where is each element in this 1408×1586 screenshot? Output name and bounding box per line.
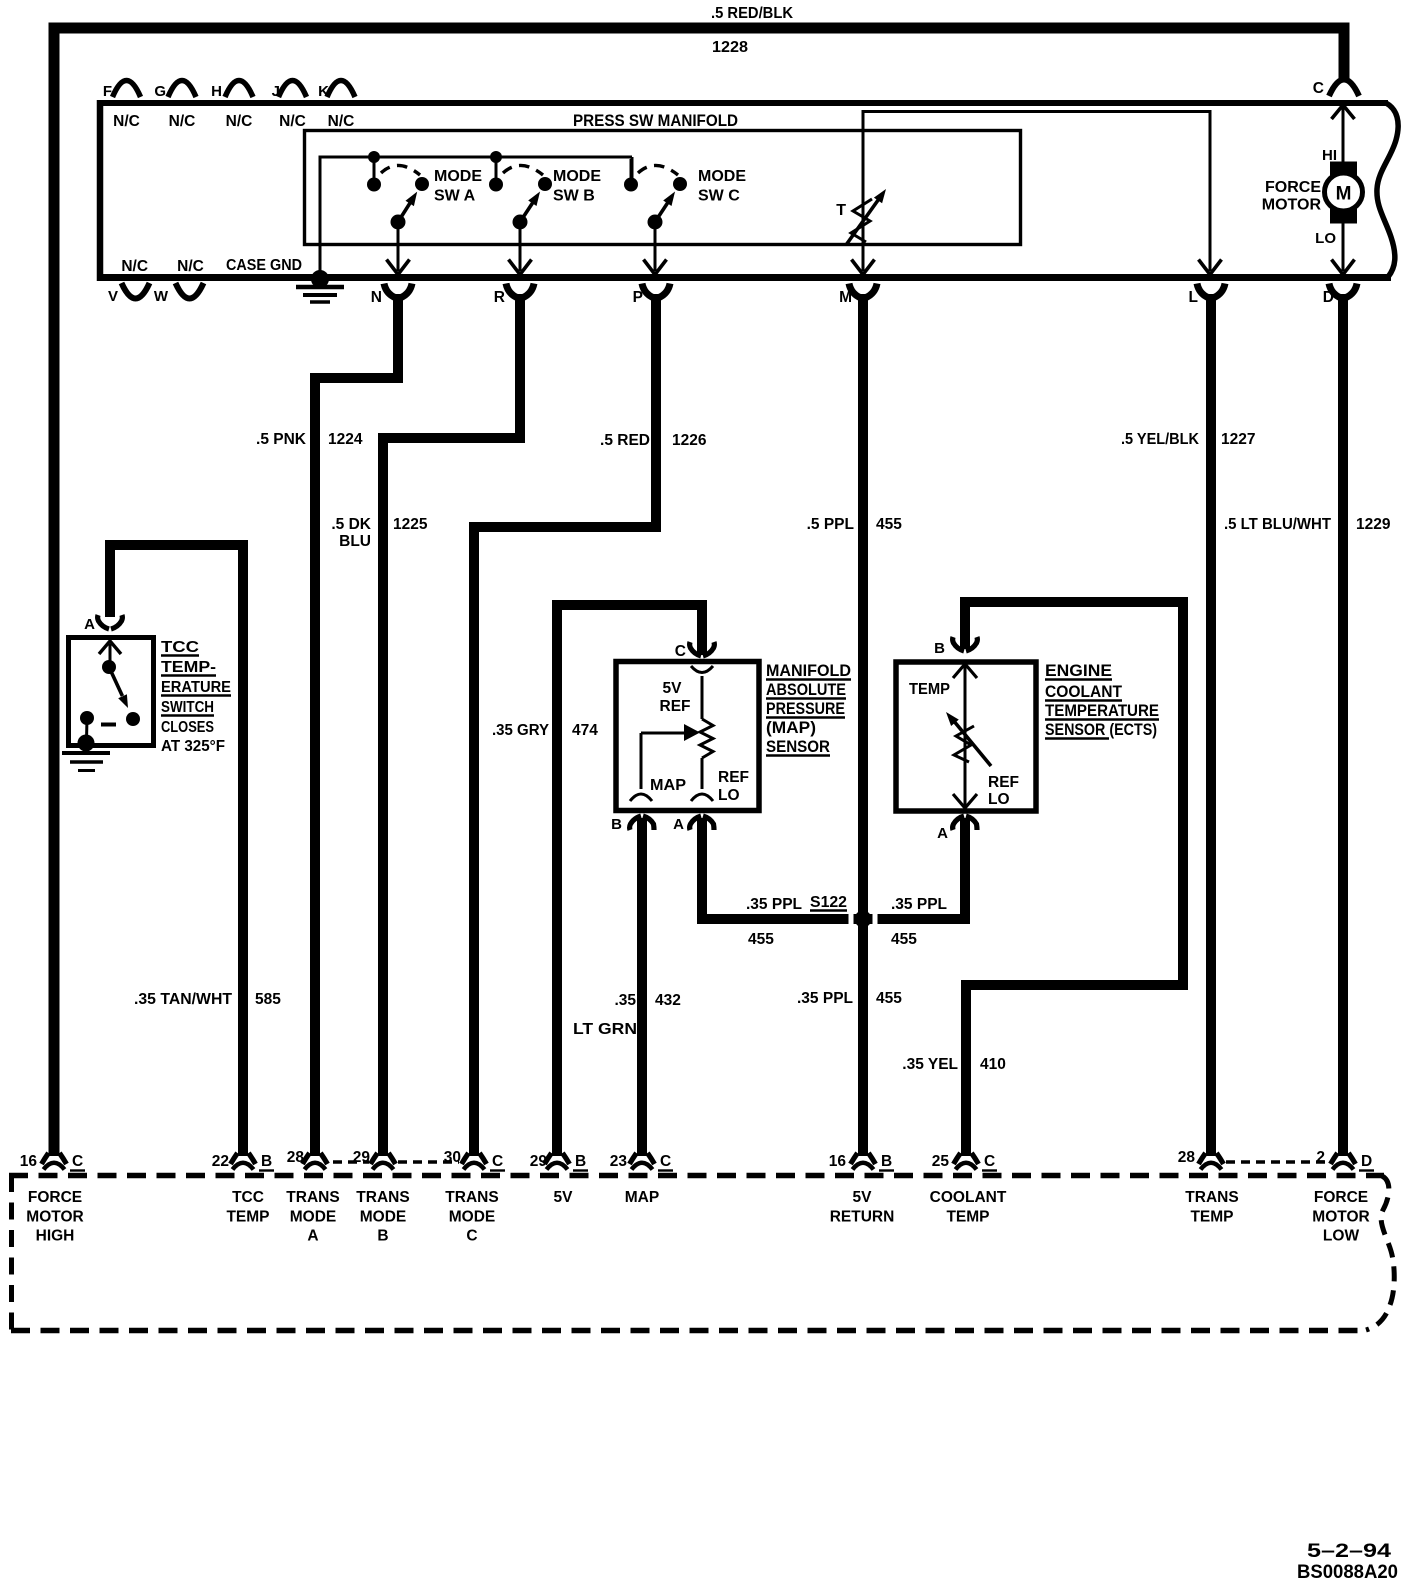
cavity G N/C [168,81,196,98]
svg-text:22: 22 [212,1153,229,1170]
svg-text:N/C: N/C [279,113,306,130]
svg-text:29: 29 [530,1153,548,1170]
PCM terminal 22 TCC TEMP [231,1153,238,1164]
svg-text:SENSOR: SENSOR [766,737,830,756]
svg-text:SENSOR (ECTS): SENSOR (ECTS) [1045,720,1157,739]
mode switch box [305,131,1021,245]
pin P (manifold bottom) [642,284,653,298]
ECTS box [896,662,1036,811]
PRESS SW MANIFOLD torn right edge [1377,103,1398,277]
svg-text:MODE: MODE [290,1208,337,1225]
svg-text:TEMP-: TEMP- [161,659,216,676]
svg-text:TCC: TCC [232,1189,264,1206]
svg-text:N/C: N/C [328,113,355,130]
MAP sensor pin A cup [691,794,713,801]
svg-text:C: C [1313,80,1324,97]
svg-text:REF: REF [660,698,691,715]
svg-text:B: B [611,816,622,833]
svg-text:455: 455 [876,990,902,1007]
svg-text:5V: 5V [663,680,683,697]
wire 585 .35 TAN/WHT TCC temp [110,545,243,1156]
svg-text:28: 28 [287,1149,305,1166]
svg-text:1227: 1227 [1221,431,1255,448]
pin L (manifold bottom) [1197,284,1208,298]
wire mode switch B pivot to manifold pin [519,222,522,271]
svg-text:A: A [307,1228,318,1245]
svg-text:N: N [371,289,382,306]
svg-text:J: J [272,83,280,100]
svg-text:455: 455 [748,931,774,948]
svg-text:.5 DK: .5 DK [331,516,371,533]
wire 455 .35 PPL MAP ref lo to splice [702,818,965,919]
wire L internal (press sw manifold) [1209,111,1212,271]
svg-text:1224: 1224 [328,431,363,448]
PCM terminal 16 FORCE MOTOR HIGH [42,1153,49,1164]
svg-text:ENGINE: ENGINE [1045,661,1112,680]
svg-text:M: M [1336,184,1352,205]
svg-text:PRESS SW MANIFOLD: PRESS SW MANIFOLD [573,111,738,130]
MAP sensor pin B cup [630,794,652,801]
svg-text:29: 29 [353,1149,371,1166]
MAP sensor box [616,662,759,811]
mode switch B [490,151,502,163]
svg-text:H: H [211,83,222,100]
cavity J N/C [279,81,307,98]
svg-text:S122: S122 [810,894,847,911]
svg-text:BS0088A20: BS0088A20 [1297,1561,1398,1583]
svg-text:1225: 1225 [393,516,428,533]
wire 1225 .5 DK BLU trans mode B [383,294,520,1156]
thermistor T [862,111,865,271]
svg-text:CLOSES: CLOSES [161,719,214,736]
svg-text:474: 474 [572,722,598,739]
pin C (manifold top) [1329,80,1359,97]
svg-text:N/C: N/C [113,113,140,130]
svg-text:AT 325°F: AT 325°F [161,738,225,755]
wire 1227 .5 YEL/BLK trans temp [1206,294,1216,1156]
svg-text:1226: 1226 [672,432,707,449]
svg-text:585: 585 [255,991,281,1008]
svg-text:MODE: MODE [360,1208,407,1225]
MAP sensor pin C terminal [690,642,701,656]
TCC switch case ground [62,751,110,755]
svg-text:C: C [492,1153,503,1170]
svg-text:2: 2 [1316,1149,1325,1166]
svg-text:.35 GRY: .35 GRY [492,722,550,739]
svg-text:TCC: TCC [161,639,200,656]
svg-text:.5 LT BLU/WHT: .5 LT BLU/WHT [1224,516,1332,533]
svg-text:A: A [673,816,684,833]
svg-text:HIGH: HIGH [36,1228,75,1245]
svg-text:.35 PPL: .35 PPL [797,990,853,1007]
MAP sensor pin B terminal [630,816,641,830]
svg-text:K: K [318,83,329,100]
svg-text:MAP: MAP [650,777,686,794]
svg-text:N/C: N/C [169,113,196,130]
ECTS internal [953,664,977,678]
svg-text:25: 25 [932,1153,950,1170]
TCC temperature switch contacts [99,641,121,654]
svg-text:.35 PPL: .35 PPL [746,896,802,913]
svg-text:SW A: SW A [434,188,476,205]
PCM terminal 30 TRANS MODE C [462,1153,469,1164]
dashes between PCM terminals 28-29-30 [333,1160,369,1163]
svg-text:ERATURE: ERATURE [161,679,231,696]
ECTS pin A terminal [953,816,964,830]
svg-text:410: 410 [980,1056,1006,1073]
svg-text:.5 RED/BLK: .5 RED/BLK [711,5,794,22]
svg-text:D: D [1361,1153,1372,1170]
wire 455 .5 PPL 5V return [858,294,868,1156]
cavity K N/C [327,81,355,98]
mode switch A [368,151,380,163]
force motor M [1330,162,1357,176]
wire ECTS temp feed (trans temp side) [965,602,1183,1156]
svg-text:LOW: LOW [1323,1228,1360,1245]
T box [862,110,1212,113]
svg-text:TRANS: TRANS [286,1189,339,1206]
svg-text:T: T [836,202,846,219]
TCC temperature switch box [69,638,154,746]
MAP potentiometer [700,719,713,758]
svg-text:A: A [84,616,95,633]
svg-text:B: B [261,1153,272,1170]
svg-text:.5 PPL: .5 PPL [807,516,854,533]
pin D (manifold bottom) [1329,284,1340,298]
wire C-D internal (force motor) [1342,103,1345,271]
ECTS pin B terminal [953,637,964,651]
svg-text:L: L [1189,289,1198,306]
cavity V N/C [122,283,150,299]
svg-text:LO: LO [988,791,1010,808]
svg-text:TEMPERATURE: TEMPERATURE [1045,701,1159,720]
svg-text:B: B [377,1228,388,1245]
wire 1228 .5 RED/BLK force-motor feed [54,28,1344,1156]
svg-text:455: 455 [876,516,902,533]
PCM terminal 28 TRANS MODE A [303,1153,310,1164]
svg-text:P: P [633,289,643,306]
wire mode switch C pivot to manifold pin [654,222,657,271]
svg-text:F: F [103,83,112,100]
svg-text:MAP: MAP [625,1189,659,1206]
svg-text:30: 30 [444,1149,461,1166]
svg-text:SW B: SW B [553,188,595,205]
wire 1226 .5 RED trans mode C [474,294,656,1156]
svg-text:SW C: SW C [698,188,740,205]
mode switch C [630,159,633,181]
svg-text:B: B [934,640,945,657]
svg-text:B: B [881,1153,892,1170]
PCM terminal 29 5V [545,1153,552,1164]
MAP sensor pin C cup [691,666,713,673]
svg-text:TEMP: TEMP [946,1208,989,1225]
svg-text:HI: HI [1322,147,1337,164]
svg-text:.5 YEL/BLK: .5 YEL/BLK [1121,431,1200,448]
svg-text:LO: LO [1315,230,1336,247]
svg-text:455: 455 [891,931,917,948]
svg-text:COOLANT: COOLANT [1045,682,1123,701]
ECTS thermistor [953,720,991,766]
svg-text:5–2–94: 5–2–94 [1307,1540,1391,1562]
pin M (manifold bottom) [849,284,860,298]
cavity W N/C [176,283,204,299]
PCM terminal 16 5V RETURN [851,1153,858,1164]
svg-text:LO: LO [718,787,740,804]
svg-text:.35 YEL: .35 YEL [902,1056,958,1073]
PRESS SW MANIFOLD box [97,100,1388,106]
TCC temperature switch pin A [98,615,109,629]
splice S122 [849,913,854,926]
dashes between PCM terminals 28-2 [1226,1160,1328,1163]
wire 474 .35 GRY 5V reference [557,605,702,1156]
svg-text:G: G [154,83,166,100]
svg-text:(MAP): (MAP) [766,718,816,737]
svg-text:MODE: MODE [698,168,746,185]
svg-text:TRANS: TRANS [1185,1189,1238,1206]
svg-text:N/C: N/C [121,258,148,275]
PCM terminal 28 TRANS TEMP [1199,1153,1206,1164]
svg-text:FORCE: FORCE [1265,179,1321,196]
svg-text:COOLANT: COOLANT [930,1189,1007,1206]
svg-text:PRESSURE: PRESSURE [766,699,845,718]
svg-text:B: B [575,1153,586,1170]
svg-text:MODE: MODE [434,168,482,185]
wire 432 .35 LT GRN MAP signal [637,818,647,1156]
svg-text:28: 28 [1178,1149,1196,1166]
svg-text:LT GRN: LT GRN [573,1021,637,1038]
svg-text:.35 TAN/WHT: .35 TAN/WHT [134,991,233,1008]
MAP wiper arrow [641,732,684,735]
pin R (manifold bottom) [506,284,517,298]
svg-text:5V: 5V [554,1189,574,1206]
MAP sensor pin A terminal [690,816,701,830]
pin N (manifold bottom) [384,284,395,298]
PCM terminal 25 COOLANT TEMP [954,1153,961,1164]
svg-text:23: 23 [610,1153,628,1170]
svg-text:16: 16 [20,1153,38,1170]
svg-text:C: C [984,1153,995,1170]
svg-text:V: V [108,288,118,305]
wire 1224 .5 PNK trans mode A [315,294,398,1156]
svg-text:16: 16 [829,1153,847,1170]
svg-text:5V: 5V [853,1189,873,1206]
wire mode switch A pivot to manifold pin [397,222,400,271]
svg-text:.35 PPL: .35 PPL [891,896,947,913]
svg-text:TEMP: TEMP [909,681,950,698]
PCM terminal 23 MAP [630,1153,637,1164]
switch common bus wire to case ground [319,157,322,274]
svg-text:.35: .35 [614,992,636,1009]
svg-text:1228: 1228 [712,39,748,56]
svg-text:C: C [675,643,686,660]
svg-text:M: M [839,289,852,306]
svg-text:MODE: MODE [449,1208,496,1225]
case ground symbol [311,270,329,288]
cavity F N/C [113,81,141,98]
svg-text:1229: 1229 [1356,516,1391,533]
svg-text:TRANS: TRANS [445,1189,498,1206]
svg-text:D: D [1323,289,1334,306]
cavity H N/C [225,81,253,98]
svg-text:MOTOR: MOTOR [1262,197,1322,214]
svg-text:ABSOLUTE: ABSOLUTE [766,680,846,699]
svg-text:TRANS: TRANS [356,1189,409,1206]
svg-text:FORCE: FORCE [1314,1189,1368,1206]
svg-text:N/C: N/C [226,113,253,130]
svg-text:MODE: MODE [553,168,601,185]
svg-text:CASE GND: CASE GND [226,257,302,274]
svg-text:MOTOR: MOTOR [1312,1208,1369,1225]
svg-text:N/C: N/C [177,258,204,275]
svg-text:TEMP: TEMP [226,1208,269,1225]
svg-text:MANIFOLD: MANIFOLD [766,661,851,680]
svg-text:C: C [466,1228,477,1245]
svg-text:MOTOR: MOTOR [26,1208,83,1225]
wire 1229 .5 LT BLU/WHT force motor low [1338,294,1348,1156]
svg-text:REF: REF [988,774,1019,791]
svg-text:432: 432 [655,992,681,1009]
svg-text:BLU: BLU [339,533,371,550]
svg-text:SWITCH: SWITCH [161,699,214,716]
svg-text:.5 RED: .5 RED [600,432,650,449]
svg-text:C: C [72,1153,83,1170]
svg-text:A: A [937,825,948,842]
svg-text:TEMP: TEMP [1190,1208,1233,1225]
svg-text:C: C [660,1153,671,1170]
svg-text:W: W [154,288,169,305]
PCM terminal 29 TRANS MODE B [371,1153,378,1164]
svg-text:FORCE: FORCE [28,1189,82,1206]
PCM terminal 2 FORCE MOTOR LOW [1331,1153,1338,1164]
svg-text:R: R [494,289,505,306]
svg-text:.5 PNK: .5 PNK [256,431,307,448]
PCM connector dashed box [9,1173,1384,1179]
svg-text:REF: REF [718,769,749,786]
svg-text:RETURN: RETURN [830,1208,895,1225]
